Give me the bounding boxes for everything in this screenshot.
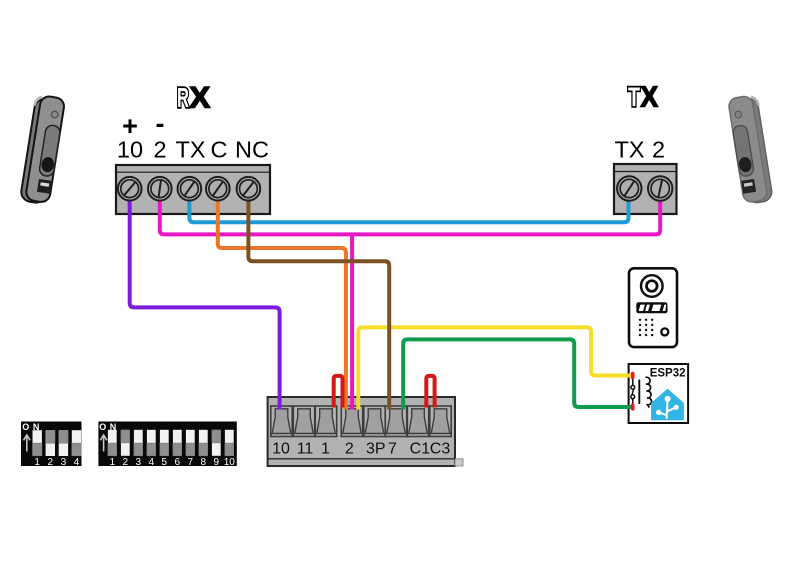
terminal block TX body xyxy=(614,164,677,214)
intercom mic hole grid xyxy=(639,319,654,337)
svg-text:R: R xyxy=(177,82,189,113)
svg-text:-: - xyxy=(156,109,165,139)
label RX logo xyxy=(177,82,210,115)
svg-text:1: 1 xyxy=(110,457,116,468)
svg-text:X: X xyxy=(641,82,659,114)
svg-text:T: T xyxy=(628,82,640,112)
svg-text:C3: C3 xyxy=(430,441,451,458)
wire magenta RX.2 to TX.2 with branch to slot 2 xyxy=(160,190,660,234)
wire brown RX.NC to bottom slot 7 xyxy=(248,190,389,410)
svg-text:1: 1 xyxy=(321,441,330,458)
terminal slot 2 xyxy=(341,406,362,437)
terminal slot C3 xyxy=(430,406,451,437)
wire purple RX.10 to bottom slot 10 xyxy=(130,190,280,410)
svg-text:X: X xyxy=(190,82,211,115)
svg-text:5: 5 xyxy=(162,457,168,468)
svg-text:4: 4 xyxy=(74,457,80,468)
svg-text:2: 2 xyxy=(153,137,166,163)
svg-text:2: 2 xyxy=(123,457,129,468)
photocell right (TX sensor) xyxy=(728,94,774,204)
screw terminal TX pin 1 xyxy=(617,176,641,200)
svg-text:2: 2 xyxy=(345,441,354,458)
svg-text:10: 10 xyxy=(224,457,236,468)
screw terminal RX pin 2 xyxy=(148,177,172,201)
screw terminal TX pin 2 xyxy=(648,176,672,200)
terminal block bottom (motherboard strip) body xyxy=(268,397,463,466)
svg-text:C: C xyxy=(211,137,228,163)
wire green bottom slot 7 to ESP32 relay bottom xyxy=(403,339,631,409)
svg-text:4: 4 xyxy=(149,457,155,468)
terminal slot 7 xyxy=(385,406,406,437)
terminal block RX body xyxy=(116,165,270,214)
intercom camera lens xyxy=(641,275,663,297)
svg-text:10: 10 xyxy=(272,441,290,458)
jumper red 1-2 xyxy=(334,376,343,408)
screw terminal RX pin 3 xyxy=(178,177,202,201)
wire yellow bottom slot 2 to ESP32 relay top xyxy=(358,327,631,409)
label TX logo xyxy=(628,82,659,114)
jumper red C1-C3 xyxy=(426,376,434,408)
svg-text:ESP32: ESP32 xyxy=(650,368,686,380)
DIP switch block 1 (4-way) xyxy=(21,422,82,468)
svg-text:TX: TX xyxy=(175,137,205,163)
intercom speaker grille xyxy=(636,302,667,313)
svg-text:3: 3 xyxy=(61,457,67,468)
screw terminal RX pin 1 xyxy=(118,177,142,201)
relay K1 switch contacts xyxy=(631,378,635,407)
terminal slot 10 xyxy=(271,406,292,437)
svg-text:1: 1 xyxy=(34,457,40,468)
screw terminal RX pin 4 xyxy=(206,177,230,201)
intercom door station U2 xyxy=(629,268,677,347)
relay terminal dot top (yellow) xyxy=(631,372,635,379)
relay K1 coil xyxy=(639,377,651,407)
terminal slot 11 xyxy=(293,406,314,437)
svg-text:11: 11 xyxy=(297,441,314,458)
svg-text:8: 8 xyxy=(201,457,207,468)
wire blue RX.TX to TX.TX xyxy=(189,190,628,222)
svg-text:9: 9 xyxy=(214,457,220,468)
svg-text:7: 7 xyxy=(188,457,194,468)
svg-text:TX: TX xyxy=(614,137,644,163)
intercom call button xyxy=(661,328,668,335)
svg-text:7: 7 xyxy=(388,441,397,458)
svg-text:2: 2 xyxy=(48,457,54,468)
svg-text:3: 3 xyxy=(136,457,142,468)
photocell left (RX sensor) xyxy=(19,94,65,204)
relay terminal dot bottom (green) xyxy=(631,403,635,410)
svg-text:10: 10 xyxy=(117,137,143,163)
svg-text:6: 6 xyxy=(175,457,181,468)
screw terminal RX pin 5 xyxy=(237,177,261,201)
ESP32 module U3 xyxy=(629,364,689,423)
DIP switch block 2 (10-way) xyxy=(98,422,236,468)
svg-text:3P: 3P xyxy=(366,441,386,458)
wire magenta branch junction to bottom slot 2 xyxy=(350,234,354,409)
Home Assistant logo xyxy=(651,389,684,421)
wire orange RX.C to bottom slot 2 xyxy=(218,190,346,410)
svg-text:2: 2 xyxy=(652,137,665,163)
terminal slot 3P xyxy=(364,406,385,437)
terminal slot C1 xyxy=(407,406,428,437)
svg-text:C1: C1 xyxy=(410,441,431,458)
svg-text:NC: NC xyxy=(235,137,269,163)
terminal slot 1 xyxy=(315,406,336,437)
